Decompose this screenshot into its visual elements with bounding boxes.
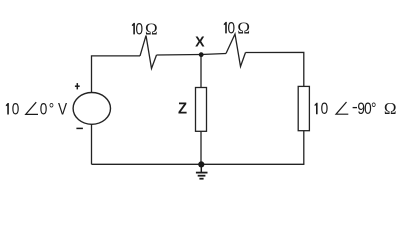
wire: Z box bottom to bottom junction <box>200 131 202 164</box>
svg-text:°: ° <box>49 100 54 118</box>
bottom wire <box>92 163 305 165</box>
wire: R2 to top-right corner, down to right impedance box <box>246 52 304 86</box>
svg-text:0: 0 <box>40 100 48 118</box>
wire: node X to R2 <box>201 54 226 55</box>
wire: right box bottom to bottom-right corner <box>303 131 305 165</box>
voltage source V1 circle <box>73 93 110 125</box>
bottom junction dot <box>198 161 204 167</box>
svg-text:°: ° <box>371 100 376 118</box>
svg-text:Z: Z <box>178 100 187 117</box>
wire: source bottom to bottom-left corner <box>91 124 93 164</box>
wire: source top up to top-left corner, then right to R1 <box>92 56 141 93</box>
wire: node X down to Z box <box>200 55 202 88</box>
label: "10" of R1 <box>132 23 135 35</box>
svg-text:0: 0 <box>321 100 329 118</box>
wire: R1 to node X <box>157 54 202 57</box>
ground symbol <box>196 164 208 178</box>
resistor R1 (10 ohm) zigzag <box>140 36 157 69</box>
label: "10" of source value <box>6 103 9 115</box>
impedance box right (10 angle -90 ohm) <box>298 86 309 130</box>
angle symbol (source label) <box>26 102 38 114</box>
svg-text:Ω: Ω <box>384 99 397 118</box>
angle symbol (right label) <box>336 102 348 114</box>
svg-text:0: 0 <box>227 19 235 37</box>
svg-text:0: 0 <box>135 20 143 38</box>
svg-text:X: X <box>195 34 205 50</box>
minus sign (right label) <box>353 107 357 109</box>
plus polarity mark <box>75 83 80 89</box>
svg-text:0: 0 <box>12 100 20 118</box>
svg-text:Ω: Ω <box>145 19 158 38</box>
impedance box Z <box>196 88 207 132</box>
svg-text:Ω: Ω <box>237 18 250 37</box>
resistor R2 (10 ohm) zigzag <box>226 34 246 67</box>
label: "10" of R2 <box>224 22 227 34</box>
svg-text:V: V <box>58 100 67 118</box>
label: "10" of right impedance <box>315 103 318 115</box>
node X junction dot <box>199 52 204 57</box>
minus polarity mark <box>76 127 83 129</box>
